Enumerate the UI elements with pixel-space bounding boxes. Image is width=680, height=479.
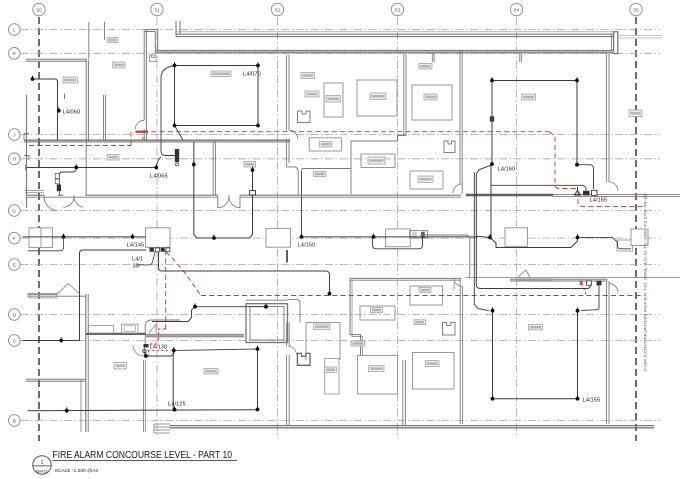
left exterior wall x27 <box>26 95 28 208</box>
equipment detail x410 <box>410 231 428 239</box>
wall y141 upper-mid-right <box>351 140 398 142</box>
svg-text:B: B <box>13 418 16 424</box>
wire L4/125 loop left side <box>172 351 174 410</box>
svg-text:L4/125: L4/125 <box>168 402 186 408</box>
grid line C <box>21 340 661 342</box>
room tag x351 <box>351 341 365 346</box>
junction box on x492 wire <box>490 116 494 121</box>
grid line 53 <box>397 17 399 437</box>
wall vertical x350 with corner step <box>350 278 361 355</box>
red arrow y131 <box>136 131 148 133</box>
device F row f <box>577 234 579 237</box>
square room obj top-right b <box>412 85 452 120</box>
svg-text:L4/1: L4/1 <box>132 257 143 263</box>
wire L4/065 to wall module <box>156 157 161 168</box>
grid line E <box>21 264 661 266</box>
wall vertical x145 lower <box>144 345 146 356</box>
tick wire start L4/065 <box>25 165 27 171</box>
wire L4/165 branch <box>577 165 594 189</box>
boxes lower-left b <box>122 324 138 333</box>
room tag right block <box>529 325 543 331</box>
door arc y195 c double <box>218 197 229 208</box>
wall vertical x86 lower <box>85 294 87 432</box>
bottom exterior wall <box>170 425 654 427</box>
svg-text:L4/165: L4/165 <box>590 198 608 204</box>
wire L4/070 loop <box>175 66 259 126</box>
room tag <box>369 366 385 372</box>
wall vertical x405 double <box>403 54 405 136</box>
wire L4/125 run <box>28 349 258 411</box>
red circuit riser x131 <box>130 132 132 146</box>
grid line F <box>21 237 661 239</box>
room tag right edge <box>629 110 642 117</box>
square room obj bottom b <box>413 353 455 390</box>
wall vertical x461 double <box>459 51 461 184</box>
device F row b <box>132 234 134 237</box>
room tag x305 <box>305 91 319 97</box>
main heavy wall y51 <box>156 51 614 53</box>
tall rect x325 <box>325 359 339 394</box>
wire drop from L4/070 to module <box>161 66 175 156</box>
red device symbol <box>580 281 584 285</box>
wire cluster down to y271 run <box>159 252 330 294</box>
wall stub x520 <box>519 54 521 62</box>
red corner to x555 <box>549 132 555 187</box>
boxes lower-left a <box>89 326 114 334</box>
right lower concourse wall y280 <box>510 278 608 280</box>
door arc y278 wall <box>454 278 462 286</box>
grid line 54 <box>516 17 518 437</box>
beam end cap <box>614 32 618 54</box>
triangle door swing near L4/130 <box>149 325 156 334</box>
tall rect room obj x324 <box>324 83 343 117</box>
tag in rect x309 <box>320 142 333 148</box>
door arc in x461 wall <box>453 184 462 193</box>
room tag top mid <box>211 71 231 77</box>
device L4/150 <box>301 234 303 237</box>
wire L4/065 run <box>27 167 156 169</box>
door arc y195 a <box>44 196 58 210</box>
wall x351 vertical room <box>350 141 352 194</box>
column box F e <box>617 240 633 251</box>
title underline <box>53 460 238 462</box>
room tag x107 <box>107 38 118 43</box>
svg-text:L4/160: L4/160 <box>498 167 516 173</box>
wire loop under device 372.5 <box>373 237 423 249</box>
wall vertical x404 bottom <box>402 360 404 425</box>
svg-text:E: E <box>13 262 16 268</box>
notch box y353 <box>297 353 310 365</box>
room tag <box>371 308 383 313</box>
device L4/125 c <box>257 406 259 409</box>
wire left device drop <box>59 168 76 185</box>
room tag <box>314 172 327 177</box>
wire F row left <box>23 236 146 238</box>
wire x474.3 drop <box>474 172 489 311</box>
device F row c <box>213 235 215 238</box>
L4/165 devices <box>575 191 581 196</box>
svg-text:C: C <box>13 338 17 344</box>
wire y185 right <box>491 185 586 190</box>
table rect x360 y306 <box>360 306 395 320</box>
room tag left <box>107 155 119 161</box>
red end dashes at L4/130 <box>149 344 159 356</box>
top-left room wall y60 <box>26 58 87 60</box>
device lift top <box>265 304 267 307</box>
notch box b <box>444 141 455 153</box>
column box F a <box>29 228 53 248</box>
device L4/065 a <box>75 164 77 167</box>
room tag <box>301 73 315 79</box>
grid line 55 <box>635 17 637 441</box>
wall vertical x144 bottom-left <box>143 360 145 432</box>
device L4/070 a <box>174 62 176 65</box>
room tag bottom-left <box>114 363 127 370</box>
wall vertical x287 double <box>285 55 287 130</box>
grid line L <box>21 29 661 31</box>
device y349 <box>257 346 259 349</box>
wall x89 top <box>88 22 90 59</box>
room tag small mid <box>414 320 426 325</box>
red run y350.5 <box>148 350 172 352</box>
svg-text:FIRE ALARM CONCOURSE LEVEL - P: FIRE ALARM CONCOURSE LEVEL - PART 10 <box>53 450 233 461</box>
room tag <box>418 176 433 183</box>
door arc x145 <box>135 120 144 129</box>
svg-text:L4/065: L4/065 <box>150 174 168 180</box>
svg-text:H: H <box>13 157 17 163</box>
red drop from L4/165 devices <box>581 284 586 296</box>
grid line B <box>21 420 661 422</box>
device C row <box>60 337 62 340</box>
door arc x608 top <box>609 182 618 191</box>
wire from loop to wall <box>175 126 184 141</box>
wire x194 drop <box>194 142 253 238</box>
svg-text:L4/130: L4/130 <box>150 345 168 351</box>
column box F b cluster <box>146 228 171 248</box>
wire F dip right <box>477 237 578 248</box>
room tag <box>419 288 431 293</box>
device L4/160 d <box>491 161 493 164</box>
notch box a <box>298 111 311 123</box>
wall corner square to x300 <box>288 299 300 322</box>
door arc x608 <box>609 284 618 293</box>
room tag <box>424 94 437 100</box>
room tag <box>326 96 341 103</box>
device L4/155 d <box>577 396 579 399</box>
wire F row right <box>302 236 478 238</box>
bracket J row <box>24 134 29 140</box>
device F row e <box>489 234 491 237</box>
door arc x287 <box>289 130 298 139</box>
left wall stub y191 <box>25 190 44 192</box>
wire y306.75 run <box>152 307 266 322</box>
wall vertical x288 bottom <box>286 323 288 347</box>
door arc mid-right <box>289 346 297 355</box>
concourse upper wall right y195 <box>466 194 553 196</box>
square room obj top-right a <box>357 80 397 116</box>
wire drop from dark box to L4/155 device <box>581 285 599 310</box>
device L4/155 b <box>577 308 579 311</box>
svg-text:50: 50 <box>36 7 42 13</box>
wall top band double <box>176 33 614 35</box>
device L4/125 b <box>174 407 176 410</box>
device L4/060 <box>58 108 60 111</box>
wall y334 heavy lower-left <box>86 333 146 335</box>
room tag beam right <box>522 94 536 100</box>
escalator marks bottom-left <box>154 424 170 433</box>
red circuit lower y295.5 <box>201 295 644 297</box>
device L4/165 feed <box>576 162 578 165</box>
grid line 52 <box>277 17 279 437</box>
svg-text:52: 52 <box>275 7 281 13</box>
device F row a <box>63 234 65 237</box>
red jog to L4/165 <box>555 187 644 207</box>
svg-text:G: G <box>12 208 16 214</box>
device y306 <box>194 304 196 307</box>
grid line D <box>21 314 661 316</box>
big square lift x246 <box>246 304 288 343</box>
device K-row left <box>32 76 34 79</box>
device L4/125 a <box>66 408 68 411</box>
device mid drop x252 <box>252 167 254 170</box>
square room obj bottom a <box>358 356 398 395</box>
mid-right room walls x290-350 y300-360 <box>306 323 340 361</box>
wire L4/155 loop <box>492 311 494 399</box>
wall x81 bottom-left <box>80 379 82 432</box>
wire F right dip out <box>578 237 632 248</box>
wall module box <box>175 149 179 162</box>
column box F c <box>266 228 291 247</box>
red riser x165.7 <box>165 250 167 329</box>
wire L4/060 run <box>33 79 58 140</box>
svg-text:L4/155: L4/155 <box>583 398 601 404</box>
grid line H <box>21 158 661 160</box>
door arc near L4/130 <box>133 345 144 356</box>
small bar near x286 y250 <box>286 250 288 263</box>
red curve from L4/145 cluster <box>166 252 201 296</box>
wall vertical x87 <box>85 60 87 195</box>
grid line J <box>21 134 661 136</box>
room tag small <box>419 64 432 70</box>
notch box top-left <box>150 55 157 62</box>
lower-left concourse wall y294 <box>27 293 57 295</box>
L4/165 lower devices y283 <box>587 281 592 285</box>
room tag x113 <box>113 62 125 68</box>
device L4/070 c <box>174 122 176 125</box>
wall step left of y51 wall <box>145 29 158 31</box>
door swing V right <box>518 270 530 278</box>
svg-text:SCALE -1:200 @A3: SCALE -1:200 @A3 <box>55 468 99 474</box>
device y350 <box>173 347 175 350</box>
device L4/070 d <box>257 122 259 125</box>
tag above device <box>244 162 256 168</box>
svg-text:FOR CONTINUATION REFER TO: DWL: FOR CONTINUATION REFER TO: DWL-1/2-G.TC-… <box>644 193 648 371</box>
equipment rect x410 y171 <box>410 171 443 189</box>
grid line K <box>21 52 661 54</box>
room tag bottom <box>204 369 218 375</box>
L4/145 cluster devices <box>150 248 154 252</box>
device L4/155 a <box>492 308 494 311</box>
wire y349 run <box>146 349 258 356</box>
wall vertical x608 right rooms <box>605 281 607 424</box>
svg-text:L4/145: L4/145 <box>127 243 145 249</box>
room tag <box>370 93 386 100</box>
concourse upper wall y195 <box>27 194 44 196</box>
svg-text:55: 55 <box>633 7 639 13</box>
red circuit top: horizontal y145 <box>29 145 131 147</box>
wall vertical x608 top <box>605 54 607 182</box>
wall rounded corner x470 <box>420 235 470 278</box>
svg-text:L4/060: L4/060 <box>63 110 81 116</box>
device L4/160 a <box>491 77 493 80</box>
room tag <box>368 157 385 164</box>
wire x491 L4/160 down to F row <box>490 165 492 238</box>
wall vertical x145 <box>143 30 145 121</box>
L4/130 cluster <box>144 344 149 347</box>
svg-text:6B421: 6B421 <box>36 469 48 474</box>
table rect x410 y286 <box>410 286 443 305</box>
wire L4/160 to x476 drop <box>476 165 590 289</box>
small wall tick x64 <box>64 94 66 100</box>
wire drop from device 62.5 <box>28 237 64 251</box>
device F row d <box>373 234 375 237</box>
svg-text:F: F <box>13 236 16 242</box>
door arc y195 b double <box>63 197 74 208</box>
svg-text:51: 51 <box>154 7 160 13</box>
column box right f <box>631 229 648 246</box>
svg-text:1: 1 <box>41 460 44 466</box>
wire C row <box>23 340 80 342</box>
svg-text:53: 53 <box>395 7 401 13</box>
wall x104 double <box>103 95 105 140</box>
svg-text:54: 54 <box>514 7 520 13</box>
wall J row y140 <box>24 139 290 141</box>
wire L4/145 feed y250 <box>80 250 147 341</box>
column box F d <box>505 228 528 247</box>
svg-text:D: D <box>13 312 17 318</box>
junction box x252 y193 <box>250 191 256 196</box>
device L4/065 b <box>155 164 157 167</box>
wall x287 below door <box>285 139 287 167</box>
notch box x442 <box>443 323 456 336</box>
shelf hatch y294 <box>29 293 57 298</box>
svg-text:L: L <box>13 27 16 33</box>
wall vertical x461 bottom <box>459 278 461 424</box>
svg-text:L4/070: L4/070 <box>243 72 261 78</box>
bracket H row <box>24 156 29 161</box>
room tag near L4/060 <box>63 77 78 83</box>
red jog near L4/130 <box>159 329 166 340</box>
title bubble <box>33 456 51 474</box>
lower wall mid y278.75 <box>350 277 461 279</box>
wall corner x145 rounded <box>145 320 180 344</box>
wall corner x298 to y195 <box>286 167 298 195</box>
wall bracket x44 <box>43 195 45 201</box>
wall vertical x214 double <box>212 141 214 195</box>
wire L4/160 loop <box>492 80 577 82</box>
wall y380 double bottom-left <box>26 378 86 380</box>
equipment rect x361 y155 <box>361 154 395 168</box>
wire drop x302 to L4/150 <box>301 171 303 237</box>
red circuit main y131.7 <box>135 131 549 133</box>
svg-text:L4/150: L4/150 <box>298 243 316 249</box>
device L4/070 b <box>257 62 259 65</box>
device x194 <box>193 161 195 164</box>
room tag bottom right <box>325 367 337 373</box>
room tag mid-right <box>314 324 331 330</box>
room tag <box>426 361 440 367</box>
thin lines right of beam <box>618 35 662 37</box>
room rect x309 <box>309 138 341 151</box>
device y293 <box>329 291 331 294</box>
svg-text:35: 35 <box>133 264 139 270</box>
wall tick x104 top <box>104 22 106 40</box>
column box x385 <box>386 229 411 247</box>
wall stub x433 <box>431 53 433 62</box>
device L4/155 c <box>492 396 494 399</box>
module boxes left <box>55 174 59 179</box>
grid line 50 <box>38 17 40 441</box>
device L4/160 b <box>576 77 578 80</box>
door swing V left y284 <box>58 284 81 295</box>
wall y168.5 to x351 <box>302 169 351 171</box>
wire cluster to L4/135 <box>138 251 156 266</box>
grid line G <box>21 210 661 212</box>
grid line 51 <box>156 17 158 437</box>
